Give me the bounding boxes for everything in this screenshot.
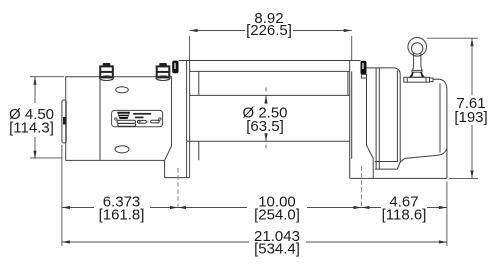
adapter verticals	[376, 68, 379, 169]
right tie-bar end bracket (black)	[361, 61, 367, 75]
right support outer edge	[367, 78, 374, 178]
label right pill	[151, 120, 160, 123]
label mid buttons	[137, 120, 146, 123]
drum bottom line	[187, 140, 350, 142]
label logo	[117, 112, 130, 119]
label text line 1	[133, 113, 151, 115]
left tie-bar end bracket (black)	[172, 61, 178, 74]
dim 8.92 arrows	[190, 29, 198, 32]
tie-rod nut right	[156, 63, 170, 80]
stem collar	[412, 70, 422, 72]
dim 7.61 extension lines	[427, 38, 478, 178]
label big pill	[117, 120, 136, 123]
dim 8.92 line	[190, 30, 352, 32]
svg-text:[254.0]: [254.0]	[254, 207, 300, 224]
bottom left extension line	[61, 145, 63, 246]
motor terminal bracket	[62, 100, 66, 143]
motor terminal block	[63, 117, 66, 125]
dim 4.50 line	[34, 77, 36, 158]
dim 8.92 extension lines	[190, 36, 352, 60]
housing inner edge line	[439, 84, 441, 153]
label text line 2	[135, 117, 144, 119]
drum right flange edge	[347, 71, 349, 95]
svg-text:[226.5]: [226.5]	[246, 22, 292, 39]
svg-text:[534.4]: [534.4]	[254, 240, 300, 257]
motor label plate	[112, 110, 163, 126]
dim 6.373 line	[62, 207, 178, 209]
left flange inner line	[198, 71, 200, 160]
lever base tab	[430, 78, 434, 82]
dim 21.043 line	[62, 241, 447, 243]
lever base plate	[404, 77, 430, 82]
gear adapter top edge	[367, 68, 401, 75]
bolt centerline 1	[177, 168, 179, 208]
clutch lever stem	[412, 53, 422, 71]
svg-text:[114.3]: [114.3]	[9, 120, 54, 137]
label screw right	[159, 118, 161, 120]
svg-text:[118.6]: [118.6]	[382, 207, 427, 224]
right bracket tab	[361, 74, 366, 78]
dim 4.67 line	[362, 207, 447, 209]
right foot bottom	[350, 177, 447, 179]
dim 7.61 line	[471, 38, 473, 178]
bottom right extension line	[446, 182, 448, 247]
motor face lower oval	[115, 146, 129, 153]
tie-rod nut left	[100, 63, 114, 80]
left foot	[165, 160, 190, 177]
housing face pair	[397, 70, 400, 169]
right support plate	[350, 61, 352, 179]
drum top line	[190, 94, 350, 96]
gear housing body	[400, 79, 447, 178]
motor end cap divider	[99, 77, 101, 161]
svg-text:[193]: [193]	[454, 109, 487, 126]
housing lower flange	[375, 162, 398, 170]
svg-text:[63.5]: [63.5]	[246, 118, 284, 135]
dim 4.50 extension lines	[30, 77, 64, 158]
motor face upper oval	[116, 87, 129, 93]
dim 2.50 centerline + arrows	[265, 88, 267, 149]
stem skirt	[409, 72, 414, 77]
clutch lever knob	[408, 38, 427, 57]
tie bar top line	[179, 60, 361, 62]
label screw left	[115, 118, 117, 120]
bolt centerline 2	[361, 166, 363, 208]
left support plate	[187, 61, 190, 178]
dim 4.50 arrows	[33, 77, 36, 85]
motor housing	[66, 77, 172, 161]
tie bar bottom line	[190, 70, 350, 72]
dim 7.61 arrows	[470, 38, 473, 46]
dim 10.00 line	[178, 207, 362, 209]
svg-text:[161.8]: [161.8]	[99, 207, 145, 224]
